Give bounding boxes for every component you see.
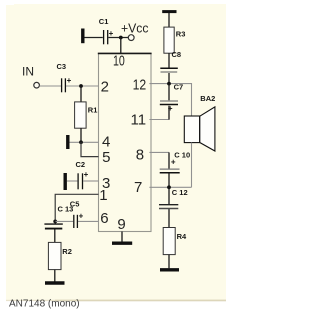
svg-text:BA2: BA2	[200, 94, 215, 103]
wire junction to pin 10	[120, 38, 122, 54]
wire R2 to ground	[54, 270, 56, 282]
svg-text:+: +	[67, 76, 72, 85]
svg-text:C 13: C 13	[58, 205, 74, 214]
svg-text:11: 11	[131, 112, 147, 129]
svg-text:C2: C2	[76, 160, 86, 169]
wire C12 to R4	[168, 209, 170, 227]
node pin7 junction	[167, 185, 171, 189]
terminal IN	[22, 64, 39, 88]
wire C10 to pin 7 node	[168, 173, 170, 187]
svg-text:7: 7	[134, 179, 142, 196]
svg-text:R1: R1	[88, 105, 98, 114]
svg-text:5: 5	[102, 149, 110, 166]
resistor R1	[75, 102, 98, 128]
svg-text:+: +	[79, 212, 84, 221]
resistor R3	[164, 27, 185, 53]
svg-text:C 12: C 12	[172, 188, 188, 197]
capacitor C5	[70, 200, 84, 229]
svg-text:R3: R3	[176, 30, 186, 39]
node Vcc junction	[119, 36, 123, 40]
svg-text:4: 4	[102, 134, 110, 151]
capacitor C1	[99, 17, 114, 44]
node pin1/C5/C13 junction	[53, 220, 57, 224]
capacitor C7	[160, 82, 183, 113]
wire junction to R1	[80, 86, 82, 102]
wire C1 to Vcc node	[108, 37, 128, 39]
wire R4 to ground	[168, 255, 170, 269]
svg-text:AN7148 (mono): AN7148 (mono)	[9, 299, 80, 310]
wire ground to pin 4	[70, 141, 99, 143]
wire IN to C3	[40, 85, 62, 87]
bottom border line	[55, 300, 226, 302]
capacitor C10	[160, 151, 190, 173]
resistor R4	[163, 228, 187, 255]
wire C13 to R2	[54, 229, 56, 242]
svg-text:C3: C3	[57, 62, 67, 71]
ground (left of pin 4, vertical bar)	[66, 135, 69, 149]
node pin2/R1 junction	[79, 84, 83, 88]
capacitor C3	[57, 62, 72, 92]
capacitor C2 (thick bar terminal)	[65, 160, 88, 190]
svg-text:+Vcc: +Vcc	[121, 20, 149, 35]
wire C7 to pin 11	[149, 106, 169, 120]
svg-text:C8: C8	[172, 50, 182, 59]
svg-text:+: +	[84, 170, 89, 179]
capacitor C12	[159, 187, 188, 208]
wire speaker to pin 7 line	[191, 143, 193, 188]
svg-text:9: 9	[117, 216, 125, 233]
svg-text:C1: C1	[99, 17, 109, 26]
wire pin 1 to C13 node	[55, 194, 98, 221]
wire C2 to pin 3	[83, 180, 99, 182]
wire C3 to pin 2	[66, 85, 99, 87]
svg-text:+: +	[171, 158, 176, 167]
capacitor C8	[160, 50, 181, 72]
svg-text:IN: IN	[22, 64, 34, 78]
capacitor C13	[44, 205, 73, 229]
wire R1 to pin4 node	[80, 128, 82, 142]
ground (above R3, inverted bar)	[162, 12, 176, 28]
ground (below R2)	[45, 281, 65, 284]
resistor R2	[48, 242, 71, 269]
ground (top-left, vertical bar)	[83, 29, 103, 44]
speaker BA2	[184, 94, 215, 151]
node pin12 junction	[167, 82, 171, 86]
svg-text:C7: C7	[174, 82, 184, 91]
svg-text:6: 6	[100, 210, 108, 227]
svg-text:1: 1	[99, 187, 107, 204]
wire pin 9 to ground	[121, 232, 123, 242]
svg-text:10: 10	[113, 53, 125, 70]
svg-text:R2: R2	[62, 247, 72, 256]
svg-text:+: +	[109, 29, 114, 38]
terminal +Vcc	[121, 20, 149, 40]
svg-text:12: 12	[133, 76, 147, 93]
svg-text:8: 8	[136, 146, 144, 163]
wire pin 8 to C10	[149, 151, 169, 153]
wire pin 12 to speaker	[149, 84, 191, 117]
node pin4 junction	[79, 140, 83, 144]
ground (below pin 9)	[112, 241, 132, 244]
wire junction down to pin 5	[81, 142, 99, 156]
svg-text:2: 2	[101, 79, 109, 96]
wire junction to C5	[55, 220, 73, 222]
wire C5 to pin 6	[78, 220, 99, 222]
wire pin 7 line	[149, 186, 191, 188]
svg-text:R4: R4	[177, 232, 187, 241]
wire C8 to pin12 node	[168, 73, 170, 84]
wire R3 to C8	[168, 53, 170, 67]
IC box U1 AN7148	[98, 53, 152, 231]
paper background	[0, 0, 226, 320]
ground (below R4)	[160, 268, 179, 271]
svg-text:C 10: C 10	[174, 151, 190, 160]
